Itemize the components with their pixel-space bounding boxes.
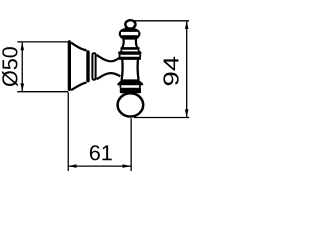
finial knob xyxy=(125,20,135,28)
neck bottom curve xyxy=(97,73,121,79)
stem left edge xyxy=(123,39,124,47)
ring slit strokes xyxy=(121,50,138,52)
arrowhead dim 50 top xyxy=(20,42,24,50)
extension line 94 top xyxy=(134,20,189,22)
extension line plate bottom (for diameter 50) xyxy=(17,91,68,93)
extension line 61 right xyxy=(130,118,132,171)
neck top curve xyxy=(97,55,120,61)
collar band B xyxy=(118,51,141,54)
extension line 61 left xyxy=(67,92,69,171)
arrowhead 94 bottom xyxy=(185,109,189,117)
shaft left edge xyxy=(120,60,123,80)
collar band C xyxy=(119,57,141,60)
arrowhead 94 top xyxy=(185,21,189,29)
ball cap xyxy=(120,88,141,94)
flare slit strokes xyxy=(120,85,139,88)
dimension text 61 (as path) xyxy=(90,145,112,160)
dimension line 61 xyxy=(68,165,131,167)
dimension text O50 (as path) xyxy=(2,47,18,86)
finial neck strokes xyxy=(126,26,134,29)
stem right edge xyxy=(136,39,137,47)
wall plate (side view bar) xyxy=(68,40,71,91)
stem ring disc xyxy=(120,47,139,50)
dimension line diameter 50 xyxy=(21,42,23,91)
shaft right edge xyxy=(136,60,139,80)
neck collar ring xyxy=(92,53,95,79)
arrowhead 61 right xyxy=(123,164,132,168)
ball xyxy=(118,93,144,116)
arrowhead dim 50 bottom xyxy=(20,83,24,91)
dimension line 94 xyxy=(186,21,188,117)
bell rim xyxy=(86,50,89,82)
bell cone top edge xyxy=(71,43,87,51)
finial bead xyxy=(119,28,141,39)
extension line 94 bottom xyxy=(134,117,189,119)
bottom flare xyxy=(117,79,143,85)
collar slit strokes xyxy=(120,55,141,57)
arrowhead 61 left xyxy=(68,164,76,168)
extension line plate top (for diameter 50) xyxy=(17,41,68,43)
dimension text 94 (as path) xyxy=(163,57,178,85)
finial bead white band xyxy=(121,32,138,35)
bell cone bottom edge xyxy=(71,83,87,91)
